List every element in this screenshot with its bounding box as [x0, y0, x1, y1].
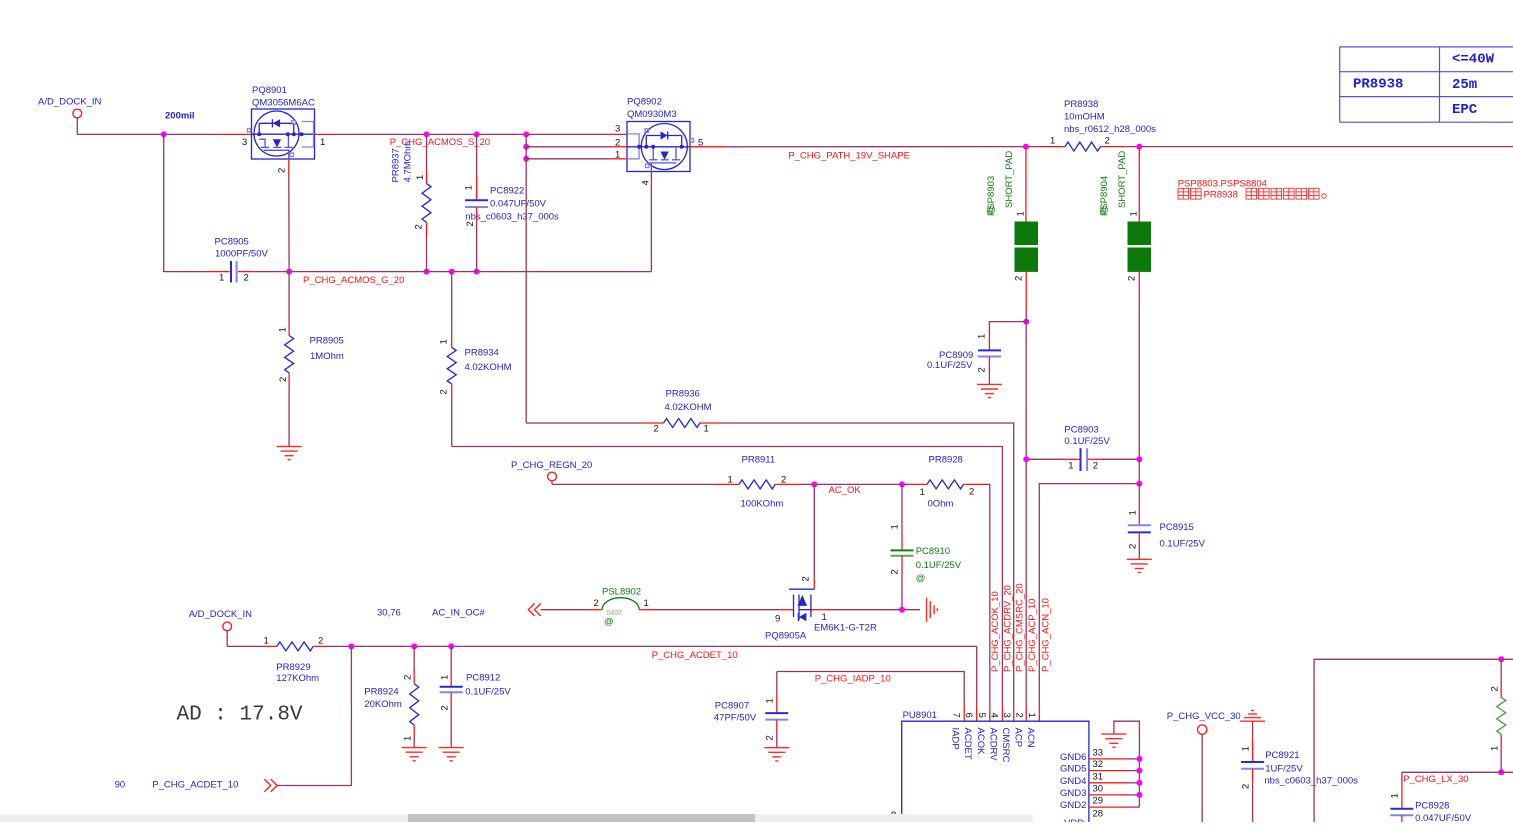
svg-text:PR8938: PR8938	[1064, 99, 1098, 110]
svg-text:EM6K1-G-T2R: EM6K1-G-T2R	[814, 623, 877, 634]
svg-text:29: 29	[1093, 796, 1104, 807]
svg-text:P_CHG_ACDRV_20: P_CHG_ACDRV_20	[1003, 585, 1014, 672]
resistor PR8905	[278, 272, 344, 447]
svg-text:P_CHG_REGN_20: P_CHG_REGN_20	[511, 460, 592, 471]
wire PR8934 to ACDRV	[452, 447, 1003, 707]
svg-text:0.1UF/25V: 0.1UF/25V	[1160, 539, 1206, 550]
svg-text:1MOhm: 1MOhm	[310, 351, 344, 362]
svg-text:GND3: GND3	[1060, 788, 1086, 799]
short pad PSP8903	[986, 147, 1038, 311]
ground below PC8907	[764, 748, 789, 761]
svg-text:1UF/25V: 1UF/25V	[1265, 764, 1303, 775]
svg-text:@: @	[604, 617, 614, 628]
svg-text:AD : 17.8V: AD : 17.8V	[177, 704, 303, 727]
svg-text:2: 2	[1127, 276, 1138, 281]
ground below PC8915	[1127, 559, 1152, 572]
wire P_CHG_ACDET_10 run	[351, 645, 976, 647]
svg-text:2: 2	[440, 705, 451, 710]
svg-text:0.047UF/50V: 0.047UF/50V	[1415, 813, 1472, 822]
wire GND trunk	[1114, 721, 1140, 807]
svg-text:PR8936: PR8936	[666, 389, 700, 400]
svg-text:1: 1	[1490, 746, 1501, 751]
svg-text:PR8905: PR8905	[310, 336, 344, 347]
svg-text:32: 32	[1093, 759, 1104, 770]
node dots on G net	[286, 269, 292, 275]
node P_CHG_VCC_30	[1167, 711, 1241, 822]
capacitor PC8912	[440, 646, 512, 747]
svg-text:ACDRV: ACDRV	[988, 728, 999, 762]
svg-text:P_CHG_IADP_10: P_CHG_IADP_10	[815, 674, 891, 685]
svg-text:1: 1	[219, 273, 224, 284]
ground below PR8905	[277, 447, 302, 460]
svg-text:PC8905: PC8905	[215, 237, 249, 248]
svg-text:SHORT_PAD: SHORT_PAD	[1117, 151, 1128, 208]
svg-text:P_CHG_ACOK_10: P_CHG_ACOK_10	[990, 591, 1001, 672]
svg-text:PQ8902: PQ8902	[627, 97, 662, 108]
svg-text:4: 4	[989, 713, 1000, 718]
svg-text:1: 1	[320, 137, 325, 148]
svg-text:P_CHG_ACDET_10: P_CHG_ACDET_10	[152, 780, 238, 791]
svg-text:5: 5	[976, 713, 987, 718]
svg-text:PR8924: PR8924	[364, 687, 398, 698]
resistor (green) right edge	[1490, 659, 1506, 772]
svg-text:2: 2	[465, 221, 476, 226]
svg-text:2: 2	[1128, 544, 1139, 549]
svg-text:28: 28	[1093, 809, 1104, 820]
svg-text:P_CHG_ACMOS_G_20: P_CHG_ACMOS_G_20	[303, 275, 404, 286]
svg-text:0Ohm: 0Ohm	[928, 499, 954, 510]
resistor PR8928	[920, 455, 975, 510]
svg-text:ACDET: ACDET	[962, 728, 973, 760]
svg-text:2: 2	[278, 377, 289, 382]
ground below PC8909	[977, 384, 1002, 397]
svg-text:PU8901: PU8901	[903, 710, 937, 721]
svg-text:0.1UF/25V: 0.1UF/25V	[916, 560, 962, 571]
svg-text:2: 2	[1014, 713, 1025, 718]
wire AC_IN_OC# run	[541, 609, 794, 611]
svg-text:GND2: GND2	[1060, 800, 1086, 811]
svg-text:PQ8905A: PQ8905A	[765, 631, 807, 642]
capacitor PC8910 (green)	[890, 484, 962, 609]
resistor PR8929	[227, 636, 351, 685]
node dots right loop	[1498, 656, 1504, 662]
svg-text:P_CHG_ACN_10: P_CHG_ACN_10	[1041, 598, 1052, 672]
offpage connector P_CHG_ACDET_10 (bottom)	[115, 646, 352, 791]
node A/D_DOCK_IN (lower)	[189, 609, 252, 646]
capacitor PC8922	[464, 134, 560, 271]
node dot ACP tap	[1023, 319, 1029, 325]
node dot ACN tap	[1136, 481, 1142, 487]
svg-text:1: 1	[278, 327, 289, 332]
svg-text:2: 2	[654, 424, 659, 435]
svg-text:1: 1	[1016, 211, 1027, 216]
svg-text:<=40W: <=40W	[1452, 52, 1495, 68]
svg-text:4.02KOHM: 4.02KOHM	[465, 362, 512, 373]
transistor PQ8905A	[765, 484, 920, 641]
svg-text:2: 2	[439, 389, 450, 394]
svg-text:ACP: ACP	[1013, 728, 1024, 748]
svg-text:2: 2	[318, 636, 323, 647]
svg-text:1: 1	[728, 475, 733, 486]
svg-text:P_CHG_CMSRC_20: P_CHG_CMSRC_20	[1015, 583, 1026, 672]
svg-text:1: 1	[890, 524, 901, 529]
svg-text:2: 2	[1105, 136, 1110, 147]
op-amp U1 IC PU8901 box	[902, 710, 1089, 822]
svg-text:PR8911: PR8911	[742, 455, 776, 466]
svg-text:0.1UF/25V: 0.1UF/25V	[1064, 436, 1110, 447]
capacitor PC8928 (clipped)	[1390, 772, 1472, 824]
svg-text:PR8928: PR8928	[929, 455, 963, 466]
svg-text:1: 1	[264, 636, 269, 647]
svg-text:1: 1	[1390, 793, 1401, 798]
svg-text:7: 7	[951, 713, 962, 718]
svg-text:0.1UF/25V: 0.1UF/25V	[465, 687, 511, 698]
svg-text:PC8921: PC8921	[1265, 750, 1299, 761]
svg-text:3: 3	[242, 137, 247, 148]
svg-text:QM0930M3: QM0930M3	[627, 109, 677, 120]
svg-text:PQ8901: PQ8901	[252, 85, 287, 96]
svg-text:nbs_c0603_h37_000s: nbs_c0603_h37_000s	[465, 212, 559, 223]
svg-text:1: 1	[464, 185, 475, 190]
node junction dot at input	[161, 131, 167, 137]
scrollbar track	[0, 814, 1033, 822]
svg-text:AC_OK: AC_OK	[829, 485, 862, 496]
svg-text:1: 1	[415, 175, 426, 180]
node dots ACDET	[348, 643, 354, 649]
svg-text:9: 9	[775, 614, 780, 625]
svg-text:P_CHG_VCC_30: P_CHG_VCC_30	[1167, 711, 1241, 722]
svg-text:PR8929: PR8929	[276, 662, 310, 673]
resistor PR8911	[728, 455, 787, 510]
svg-text:1: 1	[1129, 211, 1140, 216]
svg-text:1: 1	[1026, 713, 1037, 718]
ground below PC8912	[439, 748, 464, 761]
svg-text:2: 2	[801, 576, 812, 581]
svg-text:2: 2	[977, 367, 988, 372]
svg-text:1: 1	[403, 736, 414, 741]
node dots AC_OK	[811, 481, 817, 487]
note chinese line	[1178, 188, 1201, 199]
svg-text:PC8903: PC8903	[1064, 425, 1098, 436]
pin 28 (clipped)	[1064, 809, 1103, 827]
svg-text:2: 2	[1490, 686, 1501, 691]
svg-text:1: 1	[644, 598, 649, 609]
wire to PC8905 (left vertical)	[164, 134, 208, 271]
svg-text:2: 2	[414, 224, 425, 229]
resistor PR8938	[1050, 99, 1156, 151]
svg-text:2: 2	[1014, 276, 1025, 281]
resistor PR8934	[439, 272, 512, 447]
svg-text:GND4: GND4	[1060, 776, 1086, 787]
svg-text:P_CHG_LX_30: P_CHG_LX_30	[1403, 774, 1468, 785]
svg-text:@: @	[1099, 205, 1109, 216]
svg-text:GND5: GND5	[1060, 764, 1086, 775]
svg-text:90: 90	[115, 780, 126, 791]
svg-text:PC8922: PC8922	[490, 186, 524, 197]
pin 8 (bottom left, clipped)	[886, 810, 938, 827]
svg-text:2: 2	[781, 475, 786, 486]
svg-text:4: 4	[641, 180, 652, 185]
capacitor PC8903	[1026, 425, 1139, 472]
ground (inverted) above PC8921	[1240, 711, 1265, 722]
svg-text:2: 2	[890, 569, 901, 574]
svg-text:1: 1	[1050, 136, 1055, 147]
wire PQ8901 gate down to G net	[288, 159, 290, 272]
svg-text:33: 33	[1093, 748, 1104, 759]
svg-text:1: 1	[1241, 746, 1252, 751]
svg-text:PC8928: PC8928	[1415, 801, 1449, 812]
capacitor PC8921	[1241, 721, 1359, 822]
svg-text:1: 1	[920, 487, 925, 498]
node dots GND trunk	[1136, 756, 1142, 762]
svg-text:100KOhm: 100KOhm	[741, 499, 784, 510]
svg-text:2: 2	[1241, 784, 1252, 789]
wire P_CHG_IADP_10	[777, 672, 964, 722]
svg-text:47PF/50V: 47PF/50V	[714, 713, 757, 724]
table (top right)	[1340, 47, 1513, 122]
svg-text:127KOhm: 127KOhm	[276, 673, 319, 684]
capacitor PC8909	[927, 322, 1026, 385]
capacitor PC8905	[208, 237, 269, 284]
node P_CHG_REGN_20	[511, 460, 592, 484]
svg-text:ACOK: ACOK	[975, 728, 986, 756]
svg-text:1: 1	[704, 424, 709, 435]
svg-text:30: 30	[1093, 784, 1104, 795]
svg-text:1: 1	[440, 675, 451, 680]
svg-text:0.047UF/50V: 0.047UF/50V	[490, 199, 547, 210]
node dots PC8903	[1023, 456, 1029, 462]
svg-text:4.02KOHM: 4.02KOHM	[665, 402, 712, 413]
svg-text:@: @	[986, 205, 996, 216]
svg-text:1: 1	[439, 339, 450, 344]
svg-text:200mil: 200mil	[165, 111, 195, 122]
svg-text:A/D_DOCK_IN: A/D_DOCK_IN	[189, 609, 252, 620]
svg-text:EPC: EPC	[1452, 102, 1478, 118]
ground (sideways) right of PQ8905A	[927, 598, 938, 622]
capacitor PC8907	[714, 672, 788, 748]
svg-text:GND6: GND6	[1060, 752, 1086, 763]
resistor PR8924	[364, 646, 418, 747]
svg-text:PC8907: PC8907	[715, 701, 749, 712]
svg-text:2: 2	[969, 487, 974, 498]
svg-text:31: 31	[1093, 771, 1104, 782]
svg-text:2: 2	[403, 675, 414, 680]
svg-text:10mOHM: 10mOHM	[1064, 112, 1105, 123]
svg-text:A/D_DOCK_IN: A/D_DOCK_IN	[38, 97, 101, 108]
svg-text:P_CHG_PATH_19V_SHAPE: P_CHG_PATH_19V_SHAPE	[788, 151, 910, 162]
transistor PQ8902	[615, 97, 703, 186]
wire P_CHG_PATH_19V_SHAPE output	[690, 146, 1513, 148]
svg-text:PSP8803.PSPS8804: PSP8803.PSPS8804	[1178, 179, 1267, 190]
svg-text:PR8938: PR8938	[1204, 190, 1238, 201]
wire PQ8902 gate pin4 down to G net	[650, 172, 652, 272]
svg-text:1: 1	[977, 334, 988, 339]
svg-text:PR8937: PR8937	[391, 148, 402, 182]
ground for IC GND pins	[1101, 734, 1126, 747]
resistor PR8937	[391, 134, 432, 271]
svg-text:SHORT_PAD: SHORT_PAD	[1004, 151, 1015, 208]
svg-text:IADP: IADP	[950, 728, 961, 750]
IC right side GND pins	[1060, 748, 1139, 764]
wire CMSRC from drain column via PR8936	[526, 423, 1014, 721]
node dot source junction	[899, 607, 905, 613]
wire ACP vertical to IC pin2	[1025, 311, 1027, 721]
svg-text:3: 3	[615, 124, 620, 135]
svg-text:VDD: VDD	[1064, 818, 1084, 822]
svg-text:QM3056M6AC: QM3056M6AC	[252, 98, 315, 109]
svg-text:CMSRC: CMSRC	[1000, 728, 1011, 763]
svg-text:1: 1	[1068, 461, 1073, 472]
svg-text:30,76: 30,76	[377, 608, 401, 619]
svg-text:nbs_r0612_h28_000s: nbs_r0612_h28_000s	[1064, 124, 1156, 135]
wire P_CHG_ACMOS_G_20 horizontal	[251, 271, 651, 273]
svg-text:PSL8902: PSL8902	[602, 587, 641, 598]
svg-text:nbs_c0603_h37_000s: nbs_c0603_h37_000s	[1264, 776, 1358, 787]
wire PQ8902 drain bracket feeders	[526, 134, 627, 423]
svg-text:2: 2	[594, 598, 599, 609]
svg-text:AC_IN_OC#: AC_IN_OC#	[432, 608, 486, 619]
svg-text:1: 1	[1128, 510, 1139, 515]
node dots on S net	[424, 131, 430, 137]
short pad PSP8904	[1099, 147, 1151, 460]
svg-text:0.1UF/25V: 0.1UF/25V	[927, 360, 973, 371]
ground below PR8924	[402, 748, 427, 761]
svg-text:2: 2	[1093, 461, 1098, 472]
svg-text:2: 2	[277, 168, 288, 173]
svg-text:P_CHG_ACDET_10: P_CHG_ACDET_10	[652, 650, 738, 661]
svg-text:1: 1	[822, 612, 827, 623]
svg-text:PR8934: PR8934	[465, 348, 499, 359]
wire right power loop	[1314, 659, 1513, 822]
node A/D_DOCK_IN (top)	[38, 97, 101, 135]
svg-text:25m: 25m	[1452, 77, 1477, 93]
svg-text:3: 3	[1001, 713, 1012, 718]
scrollbar thumb	[408, 814, 755, 822]
svg-text:PC8912: PC8912	[466, 673, 500, 684]
svg-text:PC8915: PC8915	[1160, 522, 1194, 533]
wire ACN feed	[1039, 459, 1139, 721]
transistor PQ8901	[242, 85, 325, 173]
svg-text:ACN: ACN	[1025, 728, 1036, 748]
capacitor PC8915	[1128, 484, 1206, 560]
svg-text:6: 6	[963, 713, 974, 718]
svg-text:1: 1	[765, 698, 776, 703]
svg-text:PR8938: PR8938	[1353, 77, 1403, 93]
inductor PSL8902	[594, 587, 649, 628]
svg-text:@: @	[916, 573, 926, 584]
resistor PR8936	[654, 389, 712, 435]
node dots on 19V path	[1023, 144, 1029, 150]
svg-text:2: 2	[244, 273, 249, 284]
svg-text:20KOhm: 20KOhm	[364, 699, 402, 710]
svg-text:1000PF/50V: 1000PF/50V	[215, 249, 268, 260]
offpage connector AC_IN_OC#	[377, 604, 541, 619]
svg-text:2: 2	[765, 735, 776, 740]
svg-text:4.7MOhm: 4.7MOhm	[403, 141, 414, 183]
svg-text:PC8910: PC8910	[916, 546, 950, 557]
wire P_CHG_ACMOS_S_20 main horizontal	[77, 133, 627, 135]
svg-text:P_CHG_ACP_10: P_CHG_ACP_10	[1027, 599, 1038, 672]
wire AC_OK run	[552, 484, 990, 721]
